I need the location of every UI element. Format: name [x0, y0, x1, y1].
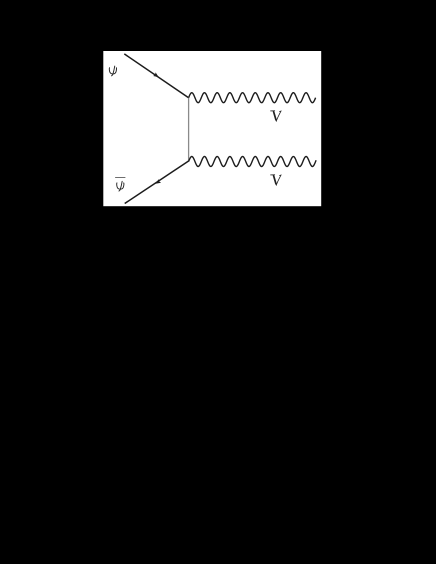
overline bar of psi-bar label	[115, 177, 125, 179]
wire: internal fermion propagator (upper vertex to lower vertex)	[188, 98, 190, 162]
arrow on psi line (points toward upper vertex)	[153, 72, 159, 77]
wire: incoming fermion line psi (top-left to upper vertex)	[124, 54, 188, 98]
arrow on psi-bar line (points toward bottom-left)	[156, 179, 162, 184]
label psi-bar glyph	[117, 181, 124, 191]
wire: outgoing antifermion line psi-bar (lower vertex to bottom-left)	[125, 161, 189, 204]
boson line V upper (wavy line from upper vertex to right)	[189, 93, 316, 103]
label psi	[109, 66, 116, 76]
boson line V lower (wavy line from lower vertex to right)	[189, 157, 317, 167]
label V lower	[271, 175, 282, 186]
diagram canvas (white panel)	[103, 51, 321, 206]
label V upper	[271, 111, 282, 122]
